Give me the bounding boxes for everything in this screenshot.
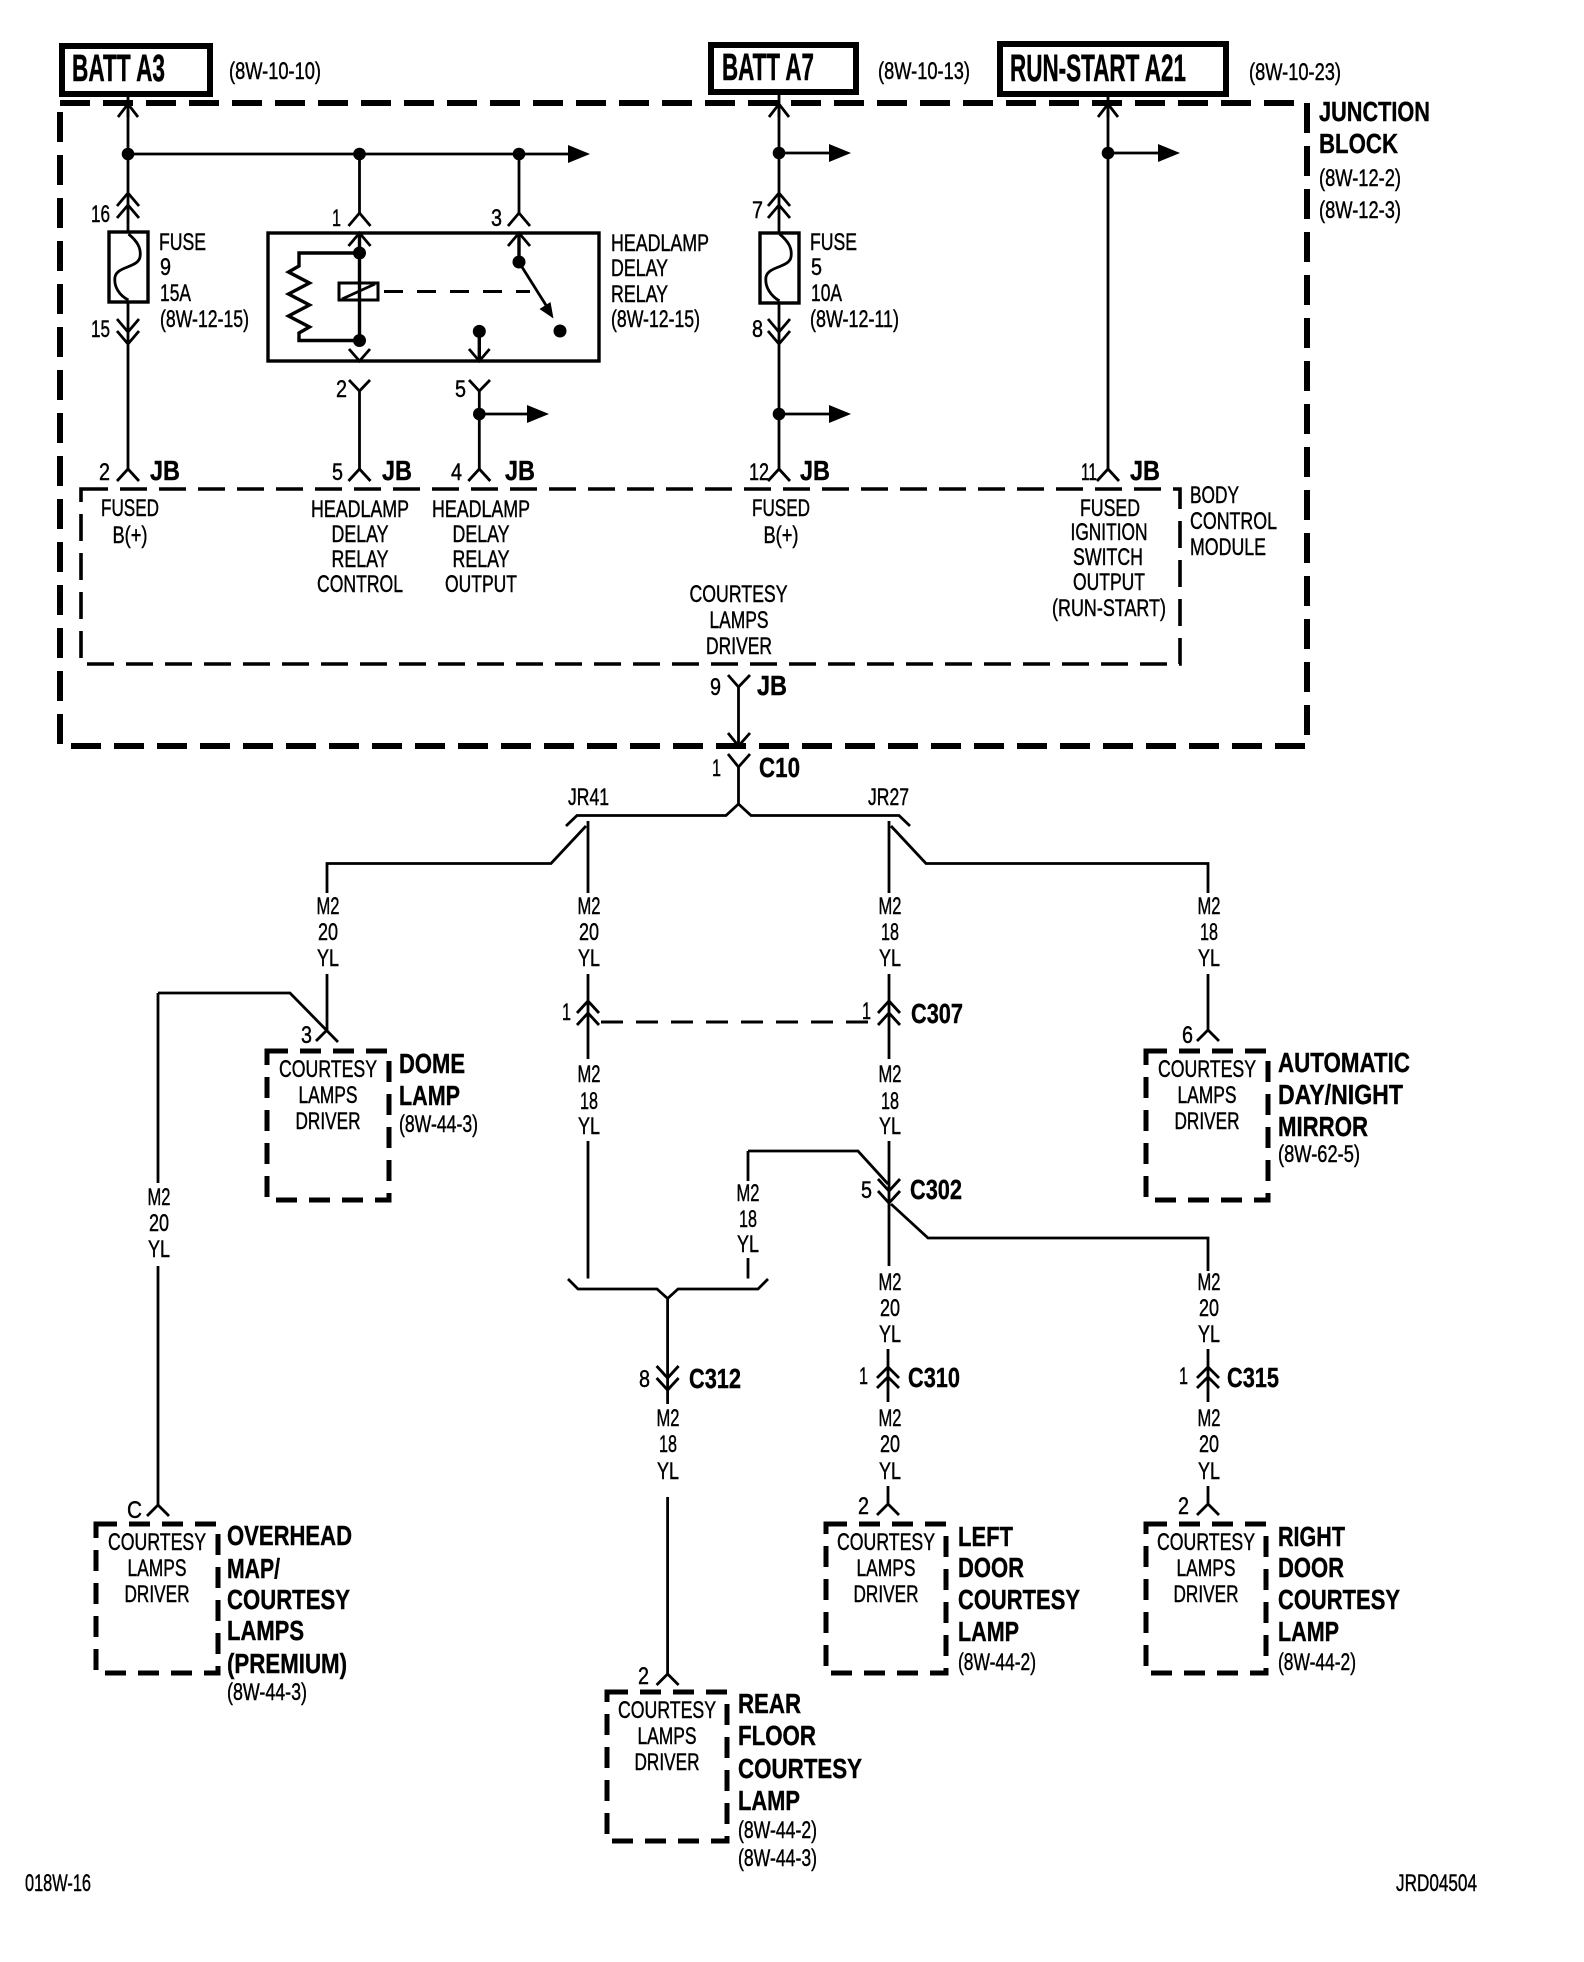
arrow down at junction block border (C10) bbox=[728, 733, 750, 746]
connector half C10 pin 1 bbox=[728, 754, 750, 779]
component RIGHT DOOR COURTESY LAMP name bbox=[1278, 1521, 1400, 1676]
svg-text:YL: YL bbox=[737, 1231, 759, 1258]
svg-text:15A: 15A bbox=[160, 280, 191, 307]
svg-text:HEADLAMP: HEADLAMP bbox=[311, 496, 409, 523]
svg-text:18: 18 bbox=[580, 1088, 598, 1115]
svg-text:M2: M2 bbox=[578, 893, 601, 920]
svg-text:6: 6 bbox=[1182, 1022, 1193, 1049]
power feed BATT A7 bbox=[711, 45, 856, 92]
svg-text:COURTESY: COURTESY bbox=[958, 1584, 1080, 1615]
component REAR FLOOR COURTESY LAMP name bbox=[738, 1688, 862, 1872]
node pin 12 branch bbox=[773, 408, 786, 421]
svg-text:2: 2 bbox=[99, 459, 110, 486]
arrow A7 branch end bbox=[829, 144, 851, 162]
switch pivot contact bbox=[513, 256, 526, 269]
wire label M2 20 YL (right door lower) bbox=[1198, 1405, 1221, 1485]
BCM pin 4 function: HEADLAMP DELAY RELAY OUTPUT bbox=[432, 496, 530, 598]
connector chevrons C307 left (up) bbox=[577, 1001, 599, 1013]
wire relay pin 3 to switch pivot bbox=[517, 233, 520, 260]
svg-text:18: 18 bbox=[659, 1431, 677, 1458]
svg-text:AUTOMATIC: AUTOMATIC bbox=[1278, 1047, 1410, 1078]
connector half JB pin 4 bbox=[468, 469, 490, 481]
right door lamp box (dashed) bbox=[1146, 1524, 1266, 1673]
svg-text:C10: C10 bbox=[759, 752, 800, 783]
svg-text:DRIVER: DRIVER bbox=[635, 1749, 700, 1776]
svg-text:10A: 10A bbox=[811, 280, 842, 307]
svg-text:RIGHT: RIGHT bbox=[1278, 1521, 1345, 1552]
headlamp delay relay box bbox=[268, 233, 599, 361]
dome lamp box (dashed) bbox=[267, 1051, 389, 1200]
node A7 branch bbox=[773, 147, 786, 160]
wire label M2 20 YL (dome branch) bbox=[317, 893, 340, 972]
svg-text:4: 4 bbox=[451, 459, 462, 486]
wire fuse 5 to JB pin 12 bbox=[778, 303, 781, 469]
arrow out of relay pin 2 bbox=[349, 349, 370, 361]
svg-text:1: 1 bbox=[562, 999, 571, 1026]
node relay output bbox=[473, 325, 486, 338]
svg-text:RUN-START A21: RUN-START A21 bbox=[1010, 48, 1186, 90]
rear floor box label bbox=[618, 1697, 716, 1776]
wire branch to arrow bbox=[479, 413, 531, 416]
svg-text:OUTPUT: OUTPUT bbox=[445, 571, 517, 598]
node A3 rail junction bbox=[122, 148, 135, 161]
svg-text:18: 18 bbox=[739, 1206, 757, 1233]
svg-text:DAY/NIGHT: DAY/NIGHT bbox=[1278, 1079, 1403, 1110]
svg-text:(8W-12-3): (8W-12-3) bbox=[1319, 197, 1401, 224]
svg-text:18: 18 bbox=[881, 919, 899, 946]
svg-text:DRIVER: DRIVER bbox=[1175, 1108, 1240, 1135]
arrow branch end bbox=[527, 405, 549, 423]
wire JR41 drop bbox=[587, 821, 590, 893]
svg-text:COURTESY: COURTESY bbox=[1158, 1056, 1256, 1083]
arrow up at junction block border (A3 feed) bbox=[118, 104, 138, 117]
svg-text:BLOCK: BLOCK bbox=[1319, 128, 1398, 159]
svg-text:(8W-44-3): (8W-44-3) bbox=[227, 1679, 307, 1706]
wire brace to C312 bbox=[666, 1299, 669, 1405]
svg-text:YL: YL bbox=[879, 945, 901, 972]
svg-text:LAMP: LAMP bbox=[738, 1785, 800, 1816]
svg-text:SWITCH: SWITCH bbox=[1073, 544, 1143, 571]
svg-text:JRD04504: JRD04504 bbox=[1396, 1870, 1477, 1897]
fuse 9 15A bbox=[109, 232, 148, 302]
svg-text:C302: C302 bbox=[910, 1174, 962, 1205]
svg-text:LAMPS: LAMPS bbox=[1177, 1555, 1236, 1582]
svg-text:LAMPS: LAMPS bbox=[638, 1723, 697, 1750]
junction block boundary (dashed) bbox=[60, 103, 1307, 746]
connector half relay pin 2 bbox=[349, 380, 370, 398]
wire label M2 20 YL (left door upper) bbox=[879, 1269, 902, 1348]
merge brace (rear floor splice) bbox=[568, 1279, 768, 1299]
wire A3 down to fuse bbox=[127, 110, 130, 232]
svg-text:5: 5 bbox=[455, 376, 466, 403]
dome lamp box label bbox=[279, 1056, 377, 1135]
svg-text:(8W-12-15): (8W-12-15) bbox=[160, 306, 249, 333]
wire A7 down to fuse bbox=[778, 110, 781, 233]
rear floor lamp box (dashed) bbox=[607, 1692, 727, 1841]
svg-text:(8W-44-3): (8W-44-3) bbox=[399, 1111, 478, 1138]
svg-text:CONTROL: CONTROL bbox=[317, 571, 403, 598]
wire relay coil branch bbox=[358, 233, 361, 341]
connector chevrons C310 (up) bbox=[877, 1367, 899, 1378]
svg-text:C310: C310 bbox=[908, 1362, 960, 1393]
wire BATT A7 feed stub bbox=[778, 94, 781, 117]
connector half right door pin 2 bbox=[1197, 1504, 1219, 1515]
svg-text:1: 1 bbox=[712, 755, 721, 782]
svg-text:YL: YL bbox=[879, 1321, 901, 1348]
svg-text:YL: YL bbox=[657, 1458, 679, 1485]
svg-text:(PREMIUM): (PREMIUM) bbox=[227, 1648, 347, 1679]
svg-text:(8W-10-23): (8W-10-23) bbox=[1249, 59, 1341, 86]
connector half left door pin 2 bbox=[877, 1504, 899, 1515]
wire JR41 into merge brace bbox=[587, 1141, 590, 1279]
svg-text:FUSED: FUSED bbox=[752, 495, 810, 522]
svg-text:7: 7 bbox=[752, 197, 763, 224]
wire overhead drop upper bbox=[157, 993, 160, 1183]
svg-text:(8W-44-2): (8W-44-2) bbox=[958, 1649, 1036, 1676]
connector half JB pin 12 bbox=[768, 469, 790, 481]
svg-text:M2: M2 bbox=[737, 1180, 760, 1207]
svg-text:DRIVER: DRIVER bbox=[296, 1108, 361, 1135]
wire JR27 lower / C307 bbox=[888, 974, 891, 1059]
svg-text:LAMPS: LAMPS bbox=[857, 1555, 916, 1582]
wire into C302 bbox=[888, 1141, 891, 1266]
wire JR41 diagonal to dome branch bbox=[327, 826, 586, 893]
node relay coil top bbox=[353, 247, 366, 260]
wire JR27 drop bbox=[888, 821, 891, 893]
svg-text:JR27: JR27 bbox=[868, 784, 909, 811]
left door lamp box (dashed) bbox=[826, 1524, 946, 1673]
svg-text:2: 2 bbox=[1178, 1493, 1189, 1520]
svg-text:DRIVER: DRIVER bbox=[1174, 1581, 1239, 1608]
wire rear-floor tap into merge brace bbox=[747, 1258, 750, 1279]
svg-text:8: 8 bbox=[752, 316, 763, 343]
svg-text:LAMPS: LAMPS bbox=[299, 1082, 358, 1109]
svg-text:(8W-12-2): (8W-12-2) bbox=[1319, 165, 1401, 192]
svg-text:CONTROL: CONTROL bbox=[1190, 508, 1277, 535]
svg-text:(8W-10-10): (8W-10-10) bbox=[229, 58, 321, 85]
splice bus bar (JR41/JR27) bbox=[566, 804, 910, 826]
svg-text:(8W-12-15): (8W-12-15) bbox=[611, 306, 700, 333]
wire JR27 diagonal to mirror branch bbox=[891, 826, 1208, 893]
wire label M2 18 YL (below C307 left) bbox=[578, 1061, 601, 1140]
svg-text:DOME: DOME bbox=[399, 1048, 465, 1079]
arrow up at junction block border (RUN-START feed) bbox=[1098, 104, 1118, 117]
svg-text:B(+): B(+) bbox=[113, 522, 148, 549]
connector half mirror pin 6 bbox=[1197, 1030, 1219, 1041]
power feed RUN-START A21 bbox=[1000, 44, 1226, 94]
connector chevrons pin 16 (up) bbox=[117, 193, 139, 206]
wire RUN-START feed stub bbox=[1107, 96, 1110, 117]
wire BATT A3 feed stub bbox=[127, 96, 130, 117]
svg-text:3: 3 bbox=[301, 1022, 312, 1049]
svg-text:(8W-44-2): (8W-44-2) bbox=[1278, 1649, 1356, 1676]
node rail to relay pin 1 bbox=[353, 148, 366, 161]
svg-text:YL: YL bbox=[578, 1113, 600, 1140]
svg-text:LAMP: LAMP bbox=[958, 1616, 1019, 1647]
arrow pin 12 branch end bbox=[829, 405, 851, 423]
wire JB pin 9 to C10 bbox=[737, 695, 740, 745]
BCM pin 12 function: FUSED B(+) bbox=[752, 495, 810, 549]
wire rail to relay pin 3 bbox=[518, 154, 521, 213]
wire RUN-START branch bbox=[1108, 152, 1162, 155]
wire RUN-START down to JB pin 11 bbox=[1107, 110, 1110, 469]
connector half relay pin 1 bbox=[349, 213, 371, 226]
svg-text:M2: M2 bbox=[879, 1061, 902, 1088]
fuse 9 labels bbox=[159, 229, 249, 333]
relay label bbox=[611, 230, 709, 333]
svg-text:1: 1 bbox=[332, 205, 341, 232]
svg-text:MODULE: MODULE bbox=[1190, 534, 1266, 561]
svg-text:COURTESY: COURTESY bbox=[279, 1056, 377, 1083]
wire label M2 18 YL (rear-floor tap) bbox=[737, 1180, 760, 1258]
component AUTOMATIC DAY/NIGHT MIRROR name bbox=[1278, 1047, 1410, 1168]
wire rear-floor tap bbox=[748, 1151, 888, 1184]
svg-text:C307: C307 bbox=[911, 998, 963, 1029]
switch blade with arrowhead bbox=[522, 267, 554, 319]
svg-text:18: 18 bbox=[1200, 919, 1218, 946]
wire label M2 20 YL (overhead) bbox=[148, 1184, 171, 1263]
connector chevrons pin 7 (up) bbox=[768, 193, 790, 206]
svg-text:(RUN-START): (RUN-START) bbox=[1052, 595, 1166, 622]
fuse 5 10A bbox=[760, 233, 799, 303]
svg-text:RELAY: RELAY bbox=[611, 281, 668, 308]
svg-text:MAP/: MAP/ bbox=[227, 1553, 280, 1584]
wire rear floor drop bbox=[666, 1497, 669, 1674]
connector chevrons C312 (down) bbox=[657, 1366, 679, 1378]
node relay coil bottom bbox=[353, 334, 366, 347]
arrow up at junction block border (A7 feed) bbox=[769, 104, 789, 117]
svg-text:COURTESY: COURTESY bbox=[1157, 1529, 1255, 1556]
node rail to relay pin 3 bbox=[513, 148, 526, 161]
svg-text:BODY: BODY bbox=[1190, 482, 1239, 509]
wire dome branch lower bbox=[326, 974, 329, 1030]
mirror box label bbox=[1158, 1056, 1256, 1135]
wire C10 to splice bus bbox=[737, 779, 740, 806]
svg-text:LAMPS: LAMPS bbox=[1178, 1082, 1237, 1109]
switch throw contact bbox=[554, 325, 567, 338]
svg-text:RELAY: RELAY bbox=[332, 546, 389, 573]
svg-text:2: 2 bbox=[638, 1663, 649, 1690]
wire top rail bbox=[128, 153, 572, 156]
svg-text:FLOOR: FLOOR bbox=[738, 1720, 816, 1751]
svg-text:DRIVER: DRIVER bbox=[706, 633, 772, 660]
svg-text:BATT A7: BATT A7 bbox=[722, 47, 814, 89]
svg-text:DRIVER: DRIVER bbox=[125, 1581, 190, 1608]
BCM pin 9 function: COURTESY LAMPS DRIVER bbox=[690, 581, 788, 660]
svg-text:M2: M2 bbox=[148, 1184, 171, 1211]
wire label M2 20 YL (right door upper) bbox=[1198, 1269, 1221, 1348]
svg-text:REAR: REAR bbox=[738, 1688, 801, 1719]
svg-text:20: 20 bbox=[1199, 1295, 1219, 1322]
junction block label bbox=[1319, 96, 1430, 224]
svg-text:COURTESY: COURTESY bbox=[738, 1753, 862, 1784]
wire right door drop bbox=[1207, 1486, 1210, 1504]
svg-text:1: 1 bbox=[1179, 1363, 1188, 1390]
svg-text:COURTESY: COURTESY bbox=[227, 1584, 350, 1615]
svg-text:COURTESY: COURTESY bbox=[690, 581, 788, 608]
svg-text:JUNCTION: JUNCTION bbox=[1319, 96, 1430, 127]
connector half overhead pin C bbox=[147, 1505, 169, 1516]
svg-text:RELAY: RELAY bbox=[453, 546, 510, 573]
svg-text:YL: YL bbox=[578, 945, 600, 972]
svg-text:LAMPS: LAMPS bbox=[227, 1615, 304, 1646]
svg-text:OUTPUT: OUTPUT bbox=[1073, 569, 1145, 596]
wire rear-floor drop upper bbox=[747, 1151, 750, 1181]
svg-text:YL: YL bbox=[1198, 1321, 1220, 1348]
svg-text:9: 9 bbox=[710, 674, 721, 701]
arrow into relay pin 1 bbox=[349, 233, 371, 246]
svg-text:C: C bbox=[127, 1497, 142, 1524]
svg-text:16: 16 bbox=[91, 201, 110, 228]
BCM label bbox=[1190, 482, 1277, 561]
svg-text:FUSED: FUSED bbox=[101, 495, 159, 522]
svg-text:15: 15 bbox=[91, 316, 110, 343]
connector half rear floor pin 2 bbox=[657, 1674, 679, 1685]
svg-text:M2: M2 bbox=[1198, 1269, 1221, 1296]
arrow out of relay pin 5 bbox=[469, 349, 490, 361]
arrow rail end bbox=[568, 145, 590, 163]
svg-text:IGNITION: IGNITION bbox=[1071, 519, 1148, 546]
svg-text:20: 20 bbox=[1199, 1431, 1219, 1458]
connector half JB pin 11 bbox=[1097, 469, 1119, 481]
svg-text:DRIVER: DRIVER bbox=[854, 1581, 919, 1608]
svg-text:M2: M2 bbox=[879, 1405, 902, 1432]
body control module box (dashed) bbox=[81, 489, 1180, 664]
svg-text:YL: YL bbox=[1198, 1458, 1220, 1485]
svg-text:M2: M2 bbox=[879, 893, 902, 920]
wire pin 12 branch bbox=[779, 413, 833, 416]
resistor (relay suppression) bbox=[289, 253, 360, 341]
svg-text:20: 20 bbox=[880, 1431, 900, 1458]
svg-text:COURTESY: COURTESY bbox=[1278, 1584, 1400, 1615]
svg-text:3: 3 bbox=[491, 205, 502, 232]
svg-text:COURTESY: COURTESY bbox=[108, 1529, 206, 1556]
svg-text:M2: M2 bbox=[1198, 893, 1221, 920]
connector half dome pin 3 bbox=[316, 1030, 327, 1041]
wire rail to relay pin 1 bbox=[358, 154, 361, 213]
svg-text:DELAY: DELAY bbox=[611, 255, 668, 282]
svg-text:MIRROR: MIRROR bbox=[1278, 1111, 1368, 1142]
connector chevrons C302 (down) bbox=[878, 1179, 900, 1191]
svg-text:JB: JB bbox=[150, 455, 180, 486]
svg-text:11: 11 bbox=[1081, 459, 1097, 486]
svg-text:LAMPS: LAMPS bbox=[128, 1555, 187, 1582]
svg-text:DOOR: DOOR bbox=[1278, 1552, 1344, 1583]
fuse 5 labels bbox=[810, 229, 899, 333]
connector half relay pin 3 bbox=[508, 213, 530, 226]
power feed BATT A3 bbox=[62, 46, 210, 94]
auto day/night mirror box (dashed) bbox=[1146, 1051, 1268, 1200]
connector half JB pin 9 bbox=[728, 675, 750, 695]
svg-text:20: 20 bbox=[149, 1210, 169, 1237]
svg-text:(8W-44-2): (8W-44-2) bbox=[738, 1817, 817, 1844]
svg-text:20: 20 bbox=[579, 919, 599, 946]
BCM pin 5 function: HEADLAMP DELAY RELAY CONTROL bbox=[311, 496, 409, 598]
wire right door into C315 bbox=[1207, 1349, 1210, 1402]
wire overhead tap diagonal bbox=[158, 993, 338, 1042]
svg-text:20: 20 bbox=[318, 919, 338, 946]
svg-text:YL: YL bbox=[879, 1458, 901, 1485]
svg-text:LAMPS: LAMPS bbox=[710, 607, 769, 634]
svg-text:JR41: JR41 bbox=[568, 784, 609, 811]
component OVERHEAD MAP/COURTESY LAMPS (PREMIUM) name bbox=[227, 1520, 352, 1706]
wire relay pin 2 to JB pin 5 bbox=[358, 398, 361, 469]
svg-text:FUSED: FUSED bbox=[1080, 495, 1140, 522]
left door box label bbox=[837, 1529, 935, 1608]
svg-text:YL: YL bbox=[148, 1236, 170, 1263]
svg-text:M2: M2 bbox=[879, 1269, 902, 1296]
svg-text:JB: JB bbox=[1130, 455, 1160, 486]
svg-text:9: 9 bbox=[160, 254, 171, 281]
connector chevrons pin 8 (down) bbox=[768, 319, 790, 332]
svg-text:DELAY: DELAY bbox=[453, 521, 510, 548]
arrow RUN-START branch end bbox=[1158, 144, 1180, 162]
svg-text:OVERHEAD: OVERHEAD bbox=[227, 1520, 352, 1551]
svg-text:12: 12 bbox=[749, 459, 769, 486]
arrow into relay pin 3 bbox=[508, 233, 530, 246]
wire C302 diagonal to right door branch bbox=[891, 1204, 1208, 1271]
wire JR41 lower / C307 bbox=[587, 974, 590, 1059]
svg-text:M2: M2 bbox=[578, 1061, 601, 1088]
overhead box label bbox=[108, 1529, 206, 1608]
wire left door drop bbox=[887, 1486, 890, 1504]
wire overhead drop lower bbox=[157, 1266, 160, 1505]
node RUN-START branch bbox=[1102, 147, 1115, 160]
svg-text:FUSE: FUSE bbox=[810, 229, 857, 256]
svg-text:HEADLAMP: HEADLAMP bbox=[432, 496, 530, 523]
svg-text:YL: YL bbox=[1198, 945, 1220, 972]
svg-text:COURTESY: COURTESY bbox=[618, 1697, 716, 1724]
svg-text:1: 1 bbox=[859, 1363, 868, 1390]
relay coil bbox=[339, 283, 378, 300]
svg-text:LAMP: LAMP bbox=[1278, 1616, 1339, 1647]
svg-text:HEADLAMP: HEADLAMP bbox=[611, 230, 709, 257]
svg-text:JB: JB bbox=[757, 670, 787, 701]
svg-text:(8W-44-3): (8W-44-3) bbox=[738, 1845, 817, 1872]
wire relay pin 5 to JB pin 4 bbox=[478, 398, 481, 469]
node pin 5 branch bbox=[473, 408, 486, 421]
svg-text:(8W-12-11): (8W-12-11) bbox=[810, 306, 899, 333]
svg-text:(8W-10-13): (8W-10-13) bbox=[878, 58, 970, 85]
svg-text:LEFT: LEFT bbox=[958, 1521, 1013, 1552]
svg-text:DOOR: DOOR bbox=[958, 1552, 1024, 1583]
connector half relay pin 5 bbox=[469, 380, 490, 398]
svg-text:YL: YL bbox=[317, 945, 339, 972]
svg-text:JB: JB bbox=[382, 455, 412, 486]
svg-text:5: 5 bbox=[861, 1177, 872, 1204]
wire A7 branch bbox=[779, 152, 833, 155]
svg-text:DELAY: DELAY bbox=[332, 521, 389, 548]
svg-text:YL: YL bbox=[879, 1113, 901, 1140]
wire label M2 18 YL (mirror branch) bbox=[1198, 893, 1221, 972]
connector chevrons C307 right (up) bbox=[878, 1001, 900, 1013]
svg-text:2: 2 bbox=[858, 1493, 869, 1520]
overhead map lamps box (dashed) bbox=[96, 1524, 218, 1673]
svg-text:B(+): B(+) bbox=[764, 522, 799, 549]
connector half JB pin 2 bbox=[117, 469, 139, 481]
svg-text:8: 8 bbox=[639, 1366, 650, 1393]
svg-text:COURTESY: COURTESY bbox=[837, 1529, 935, 1556]
svg-text:C312: C312 bbox=[689, 1363, 741, 1394]
BCM pin 2 function: FUSED B(+) bbox=[101, 495, 159, 549]
svg-text:1: 1 bbox=[862, 998, 871, 1025]
svg-text:18: 18 bbox=[881, 1088, 899, 1115]
component LEFT DOOR COURTESY LAMP name bbox=[958, 1521, 1080, 1676]
svg-text:20: 20 bbox=[880, 1295, 900, 1322]
wire label M2 18 YL (rear floor lower) bbox=[657, 1405, 680, 1485]
wire relay output to pin 5 bbox=[478, 331, 481, 361]
wire fuse 9 to JB pin 2 bbox=[127, 302, 130, 469]
